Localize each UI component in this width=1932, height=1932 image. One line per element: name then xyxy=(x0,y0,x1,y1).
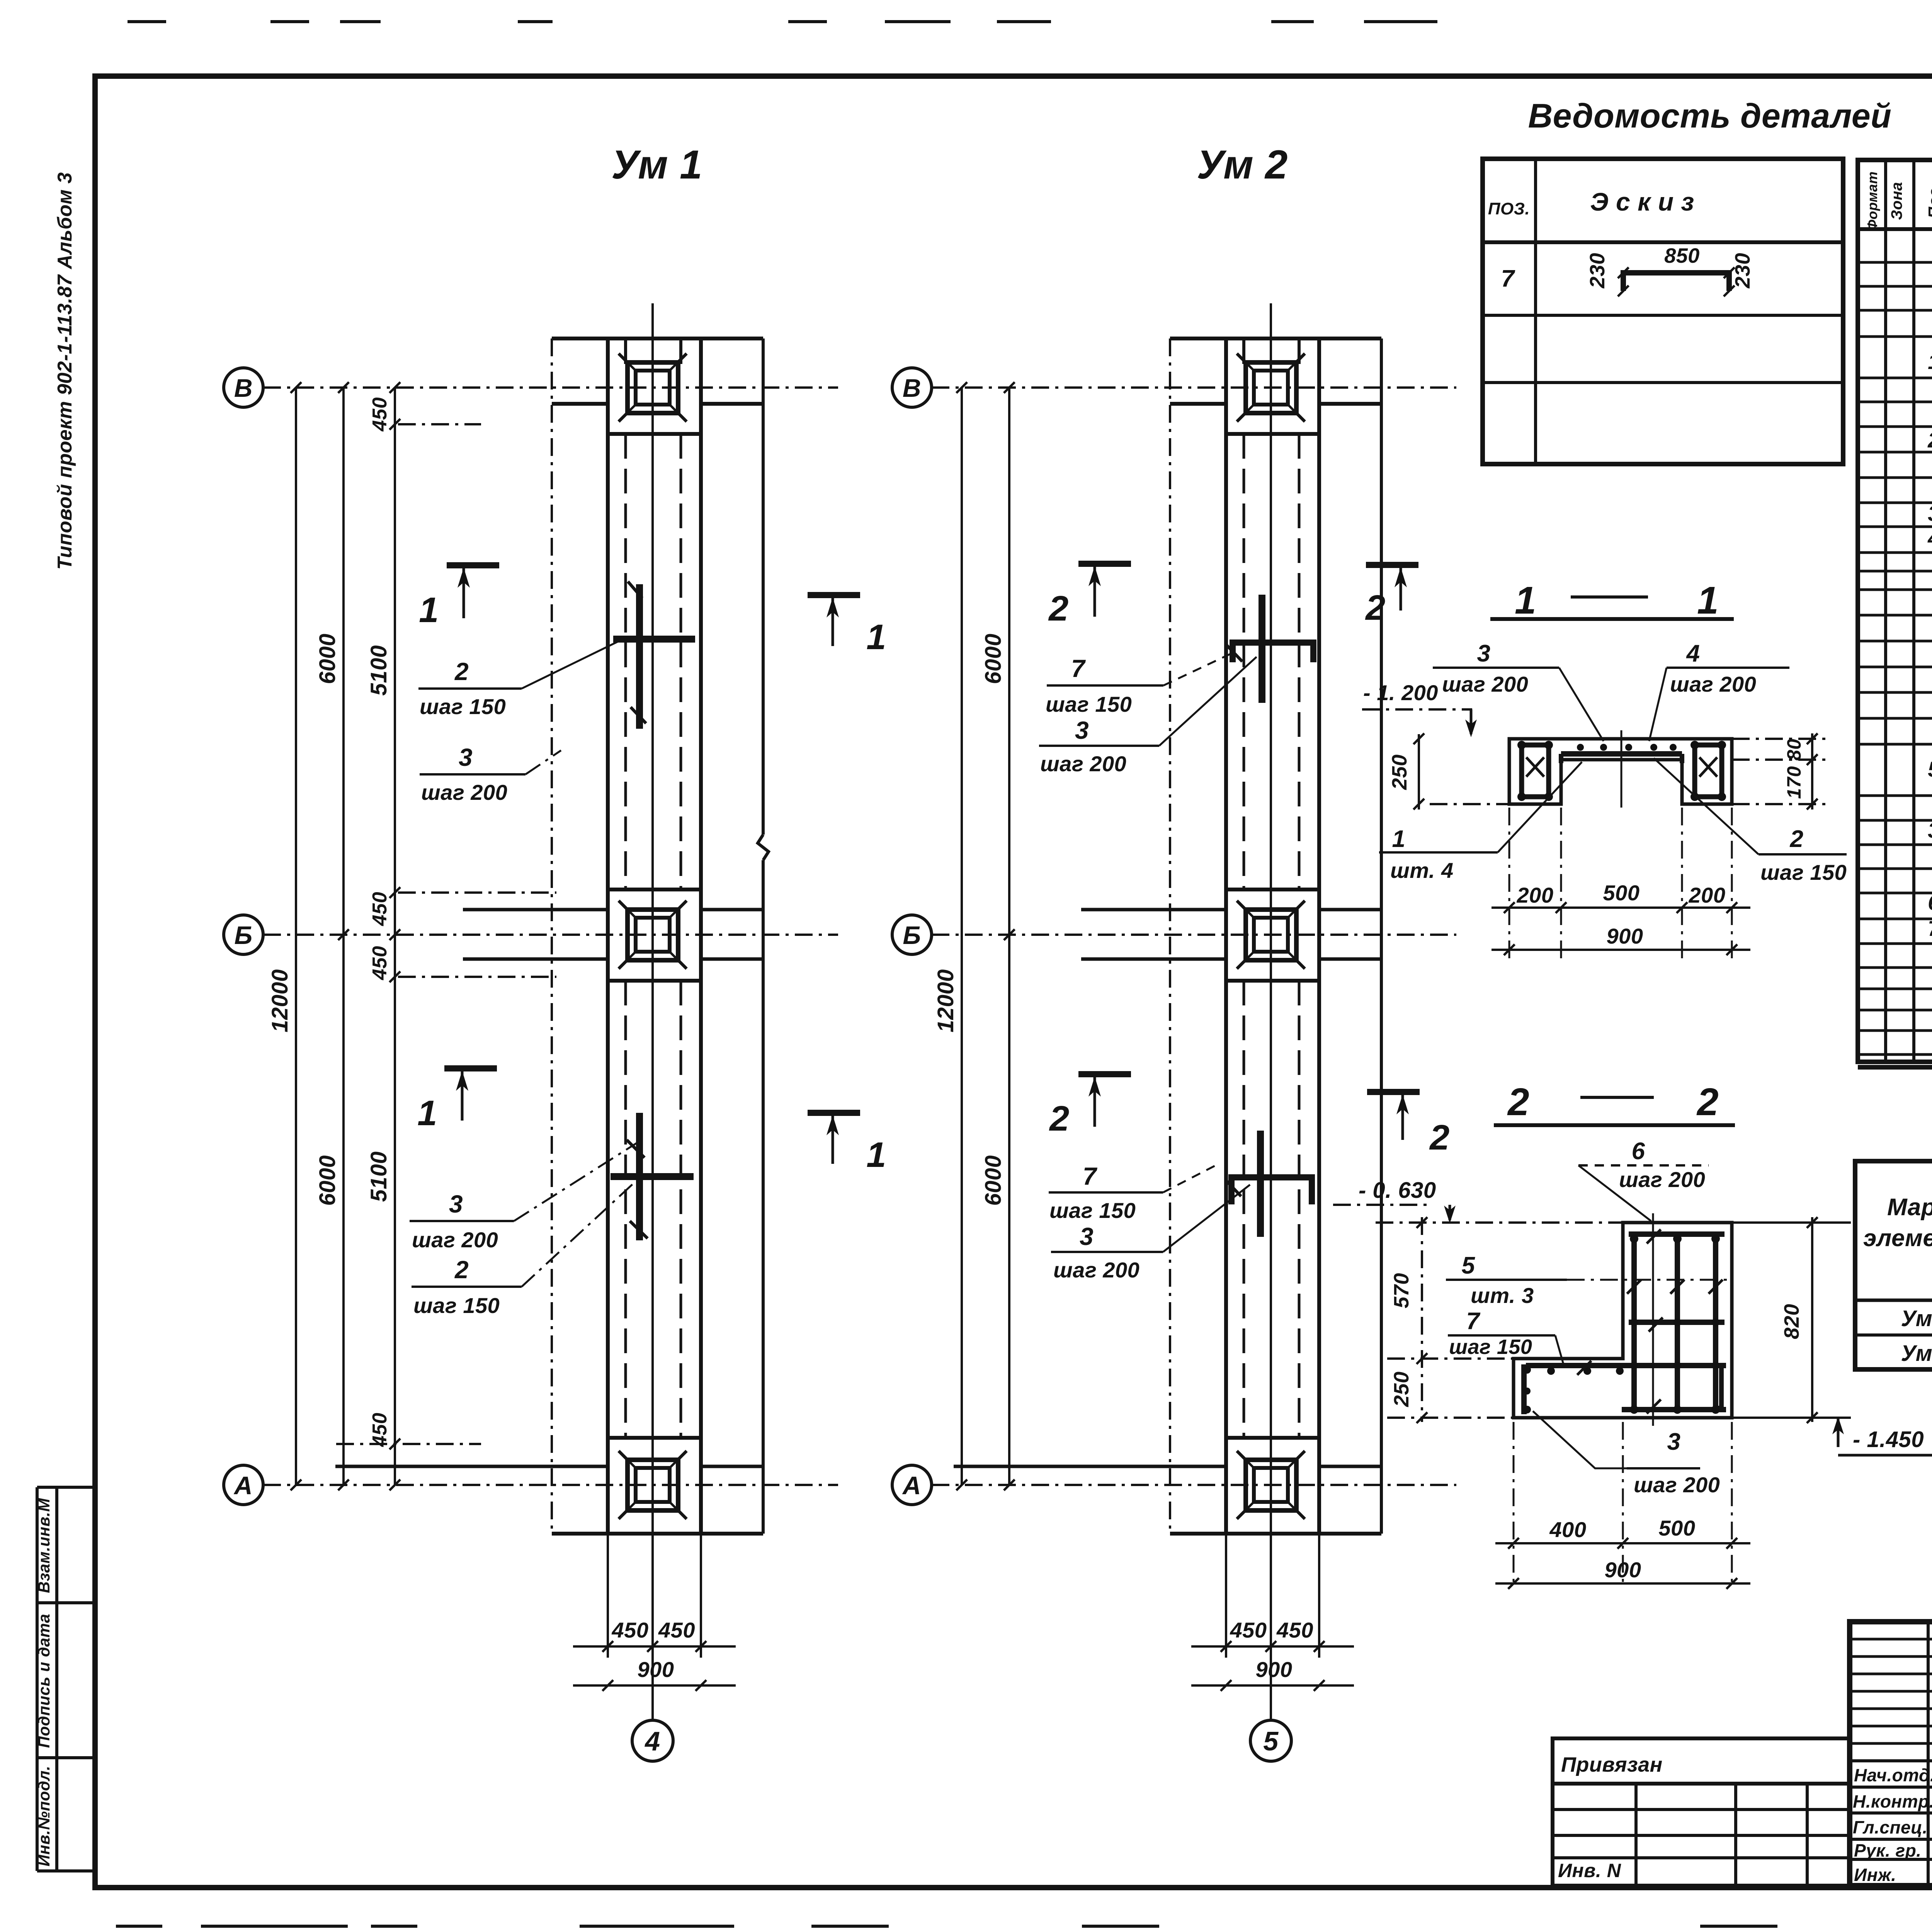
svg-text:850: 850 xyxy=(1664,244,1700,267)
svg-text:450: 450 xyxy=(1230,1618,1267,1642)
dims 400 500 (sec 2-2 bottom) xyxy=(1513,1422,1515,1588)
svg-text:В: В xyxy=(234,374,253,402)
Ум 1 grid bubble xyxy=(651,1685,654,1720)
svg-text:Поз.: Поз. xyxy=(1925,184,1932,219)
svg-text:450: 450 xyxy=(658,1618,695,1642)
section 1-1 left wall stirrup cage xyxy=(1522,745,1549,797)
svg-text:7: 7 xyxy=(1501,265,1515,292)
svg-text:шт. 3: шт. 3 xyxy=(1471,1283,1534,1308)
svg-text:3: 3 xyxy=(1477,640,1491,667)
title block left stamp columns xyxy=(1927,1622,1930,1886)
section 2-2 cage corner dots xyxy=(1630,1235,1638,1243)
svg-text:5: 5 xyxy=(1928,757,1932,781)
svg-text:5: 5 xyxy=(1462,1252,1476,1279)
svg-text:450: 450 xyxy=(369,892,391,926)
svg-text:Марка: Марка xyxy=(1887,1194,1932,1221)
section mark 1 xyxy=(447,562,499,568)
Ум 1 middle pad (axis Б) xyxy=(608,888,701,891)
dims 570 250 (sec 2-2 left) xyxy=(1421,1217,1423,1422)
svg-text:Гл.спец.: Гл.спец. xyxy=(1853,1817,1928,1837)
svg-text:6: 6 xyxy=(1928,890,1932,915)
Ум 1 left slab edge (dash-dot) xyxy=(551,338,553,1534)
svg-text:Э с к и з: Э с к и з xyxy=(1590,187,1694,216)
section mark 2 xyxy=(1366,562,1418,568)
svg-text:6000: 6000 xyxy=(981,1155,1006,1206)
svg-text:1: 1 xyxy=(866,1135,886,1175)
dims 200 500 200 (sec 1-1 bottom) xyxy=(1509,808,1510,958)
svg-text:5: 5 xyxy=(1263,1726,1279,1756)
section 1-1 concrete outline xyxy=(1509,739,1732,804)
svg-text:шаг 200: шаг 200 xyxy=(421,780,507,804)
Ум 1 bottom pad (axis А) xyxy=(608,1436,701,1440)
svg-text:3: 3 xyxy=(1075,716,1089,744)
Ум 1 bottom dims 450 450 900 xyxy=(607,1534,609,1658)
Ум 1 centre axis line xyxy=(651,303,654,1685)
Ум 1 slab top edge xyxy=(552,337,763,340)
svg-text:Ум 2: Ум 2 xyxy=(1197,142,1288,187)
dim 820 (sec 2-2 right) xyxy=(1811,1217,1813,1422)
svg-text:2: 2 xyxy=(1365,588,1386,628)
rebar bracket+cage mark Ум2 span Б-А xyxy=(1257,1131,1264,1237)
svg-text:3: 3 xyxy=(1928,501,1932,526)
svg-text:6000: 6000 xyxy=(315,633,340,684)
svg-text:1: 1 xyxy=(866,617,886,657)
svg-text:3: 3 xyxy=(459,743,473,771)
section 1-1 top rebar with dots xyxy=(1561,751,1682,757)
svg-text:- 0. 630: - 0. 630 xyxy=(1359,1178,1436,1203)
Ум 2 grid bubble xyxy=(1270,1685,1272,1720)
parts table column lines xyxy=(1884,160,1887,1062)
Ум 1 interior dashed lines xyxy=(624,338,627,364)
parts table header row xyxy=(1858,227,1932,231)
svg-text:2: 2 xyxy=(1507,1080,1529,1124)
svg-text:2: 2 xyxy=(454,1256,469,1284)
svg-text:Типовой проект 902-1-113.87: Типовой проект 902-1-113.87 Альбом 3 xyxy=(54,172,76,570)
Ум 2 right slab edge xyxy=(1380,338,1383,1534)
svg-text:450: 450 xyxy=(612,1618,649,1642)
svg-text:А: А xyxy=(902,1471,921,1500)
binding table frame xyxy=(1553,1738,1850,1886)
svg-text:Взам.инв.М: Взам.инв.М xyxy=(35,1498,53,1593)
section mark 1 xyxy=(808,1110,860,1116)
svg-text:шаг 200: шаг 200 xyxy=(1053,1258,1139,1282)
elevation -1.450 xyxy=(1837,1419,1840,1447)
svg-text:1: 1 xyxy=(1697,579,1719,622)
svg-text:шаг 200: шаг 200 xyxy=(1634,1473,1720,1497)
rebar bracket+cage mark Ум2 span В-Б xyxy=(1259,595,1265,703)
svg-text:Инж.: Инж. xyxy=(1854,1865,1896,1885)
svg-text:шаг 150: шаг 150 xyxy=(1046,692,1132,716)
svg-text:7: 7 xyxy=(1071,655,1086,682)
svg-text:2: 2 xyxy=(1790,826,1804,852)
svg-text:Инв. N: Инв. N xyxy=(1558,1860,1621,1881)
svg-text:230: 230 xyxy=(1731,253,1754,289)
svg-text:элемента: элемента xyxy=(1863,1225,1932,1252)
section 2-2 vertical cage bars xyxy=(1631,1233,1637,1410)
title block signature rows xyxy=(1850,1759,1932,1762)
svg-text:Б: Б xyxy=(234,921,252,949)
svg-text:7: 7 xyxy=(1083,1162,1098,1190)
Ум 2 centre axis line xyxy=(1270,303,1272,1685)
dims 80 170 (sec 1-1 right) xyxy=(1811,733,1813,810)
svg-text:3: 3 xyxy=(449,1190,463,1218)
Ум 1 dim line 5100/450 chain xyxy=(394,388,396,1485)
svg-text:Ум 2: Ум 2 xyxy=(1901,1341,1932,1366)
svg-text:6000: 6000 xyxy=(315,1155,340,1206)
Ум 2 interior dashed lines xyxy=(1242,338,1245,364)
Ум 2 dimension lines xyxy=(961,388,963,1485)
svg-text:2: 2 xyxy=(1429,1118,1450,1157)
svg-text:Инв.№подл.: Инв.№подл. xyxy=(35,1766,53,1867)
svg-text:шаг 150: шаг 150 xyxy=(1049,1198,1136,1223)
svg-text:200: 200 xyxy=(1517,883,1554,907)
section mark 2 xyxy=(1078,1071,1131,1077)
svg-text:500: 500 xyxy=(1659,1516,1696,1540)
svg-text:250: 250 xyxy=(1388,754,1411,790)
section 2-2 tick marks on bars xyxy=(1647,1230,1661,1243)
svg-text:шаг 200: шаг 200 xyxy=(412,1228,498,1252)
Ум 2 slab top edge xyxy=(1170,337,1381,340)
steel table outer frame xyxy=(1855,1161,1932,1369)
svg-text:Формат: Формат xyxy=(1864,171,1880,230)
svg-text:450: 450 xyxy=(369,946,391,980)
svg-text:1: 1 xyxy=(1515,579,1536,622)
svg-text:570: 570 xyxy=(1390,1273,1413,1308)
parts table extra row lines (narrow columns) xyxy=(1858,285,1932,288)
Ум 1 dimension lines xyxy=(295,388,297,1485)
svg-text:1: 1 xyxy=(1392,826,1406,852)
parts table row lines (full width) xyxy=(1858,261,1932,264)
svg-text:Б: Б xyxy=(903,921,921,949)
svg-text:- 1.450: - 1.450 xyxy=(1853,1427,1924,1452)
svg-text:7: 7 xyxy=(1466,1308,1481,1335)
svg-text:3: 3 xyxy=(1928,818,1932,842)
svg-text:250: 250 xyxy=(1390,1371,1413,1407)
parts table outer frame xyxy=(1858,160,1932,1062)
binding table grid xyxy=(1634,1784,1638,1886)
svg-text:900: 900 xyxy=(1256,1657,1293,1682)
Ум 1 axis circles В Б А xyxy=(224,368,263,407)
section mark 1 xyxy=(444,1065,497,1071)
left margin stamp boxes xyxy=(36,1487,39,1871)
svg-text:Подпись и дата: Подпись и дата xyxy=(35,1614,53,1748)
svg-text:2: 2 xyxy=(454,658,469,685)
svg-text:6: 6 xyxy=(1632,1138,1645,1165)
svg-text:- 1. 200: - 1. 200 xyxy=(1363,680,1438,705)
svg-text:шаг 150: шаг 150 xyxy=(1449,1335,1532,1359)
svg-text:900: 900 xyxy=(1605,1558,1641,1582)
svg-text:450: 450 xyxy=(369,397,391,432)
svg-text:4: 4 xyxy=(644,1726,660,1756)
svg-text:1: 1 xyxy=(417,1094,437,1133)
svg-text:шаг 150: шаг 150 xyxy=(1760,860,1847,884)
svg-text:230: 230 xyxy=(1586,253,1609,289)
Ум 1 strip walls xyxy=(606,338,610,1534)
svg-text:шаг 150: шаг 150 xyxy=(413,1293,500,1318)
svg-text:Ведомость деталей: Ведомость деталей xyxy=(1528,97,1892,135)
section 2-2 concrete outline (L shape) xyxy=(1514,1223,1732,1418)
svg-text:А: А xyxy=(233,1471,253,1500)
title block outer frame xyxy=(1850,1622,1932,1886)
svg-text:Зона: Зона xyxy=(1888,182,1905,220)
svg-text:3: 3 xyxy=(1667,1429,1681,1455)
svg-text:900: 900 xyxy=(1607,924,1643,948)
section 1-1 right wall stirrup cage xyxy=(1695,745,1722,797)
svg-text:12000: 12000 xyxy=(933,969,958,1032)
dim 900 (sec 2-2 bottom) xyxy=(1495,1582,1750,1585)
svg-text:900: 900 xyxy=(638,1657,674,1682)
Ум 1 column squares xyxy=(628,362,678,413)
svg-text:шаг 200: шаг 200 xyxy=(1619,1167,1705,1192)
sketch table frame xyxy=(1483,159,1843,464)
svg-text:Ум 1: Ум 1 xyxy=(1901,1306,1932,1331)
section 2-2 centre line xyxy=(1652,1213,1654,1426)
svg-text:4: 4 xyxy=(1686,640,1700,667)
Ум 2 bottom pad (axis А) xyxy=(1226,1436,1319,1440)
svg-text:12000: 12000 xyxy=(267,969,293,1032)
section mark 2 xyxy=(1367,1089,1420,1095)
svg-text:820: 820 xyxy=(1780,1304,1803,1339)
Ум 2 top pad (axis В) xyxy=(1226,432,1319,436)
section mark 1 xyxy=(808,592,860,598)
svg-text:Нач.отд.: Нач.отд. xyxy=(1854,1765,1932,1785)
svg-text:шаг 200: шаг 200 xyxy=(1670,672,1756,696)
Ум 2 axis circles В Б А xyxy=(892,368,932,407)
svg-text:Ум 1: Ум 1 xyxy=(611,142,702,187)
Ум 1 top pad (axis В) xyxy=(608,432,701,436)
svg-text:Н.контр.: Н.контр. xyxy=(1853,1791,1932,1811)
section 2-2 horizontal cage bars xyxy=(1629,1231,1725,1237)
Ум 2 strip walls xyxy=(1224,338,1228,1534)
svg-text:ПОЗ.: ПОЗ. xyxy=(1488,199,1530,218)
svg-text:Рук. гр.: Рук. гр. xyxy=(1854,1840,1922,1861)
svg-text:7: 7 xyxy=(1928,916,1932,940)
svg-text:4: 4 xyxy=(1927,526,1932,550)
torn paper edge dashes (top) xyxy=(128,20,166,23)
svg-text:Привязан: Привязан xyxy=(1561,1753,1663,1776)
svg-text:2: 2 xyxy=(1696,1080,1719,1124)
title block left stamp thin rows xyxy=(1850,1638,1932,1641)
svg-text:1: 1 xyxy=(419,590,439,630)
svg-text:6000: 6000 xyxy=(981,633,1006,684)
svg-text:шт. 4: шт. 4 xyxy=(1390,858,1454,883)
svg-text:5100: 5100 xyxy=(366,1151,391,1202)
svg-text:170: 170 xyxy=(1783,766,1805,799)
section mark 2 xyxy=(1078,561,1131,567)
svg-text:400: 400 xyxy=(1549,1517,1587,1542)
svg-text:5100: 5100 xyxy=(366,645,391,696)
Ум 1 right slab edge xyxy=(762,338,765,835)
svg-text:шаг 200: шаг 200 xyxy=(1442,672,1528,696)
Ум 2 column squares xyxy=(1246,362,1296,413)
svg-text:шаг 200: шаг 200 xyxy=(1040,752,1126,776)
svg-text:500: 500 xyxy=(1603,881,1640,905)
svg-text:450: 450 xyxy=(369,1413,391,1447)
svg-text:80: 80 xyxy=(1783,739,1805,761)
svg-text:3: 3 xyxy=(1080,1223,1094,1250)
rebar cage mark Ум1 span Б-А xyxy=(636,1113,643,1240)
Ум 2 left slab edge (dash-dot) xyxy=(1169,338,1171,1534)
svg-text:200: 200 xyxy=(1689,883,1726,907)
Ум 1 extension dash-dot lines at 450 ticks xyxy=(398,423,481,425)
Ум 2 bottom dims 450 450 900 xyxy=(1225,1534,1227,1658)
section 2-2 horizontal leg cage xyxy=(1521,1364,1527,1414)
svg-text:2: 2 xyxy=(1048,589,1069,628)
svg-text:шаг 150: шаг 150 xyxy=(420,694,506,719)
Ум 2 middle pad (axis Б) xyxy=(1226,888,1319,891)
svg-text:1: 1 xyxy=(1928,349,1932,374)
svg-text:2: 2 xyxy=(1049,1099,1070,1138)
section 1-1 centre line xyxy=(1621,730,1622,808)
sketch: bent bar item 7 xyxy=(1623,273,1729,291)
svg-text:В: В xyxy=(903,374,921,402)
rebar cage mark Ум1 span В-Б xyxy=(636,584,643,729)
svg-text:450: 450 xyxy=(1276,1618,1313,1642)
svg-text:2: 2 xyxy=(1927,428,1932,452)
dim 900 (sec 1-1 bottom) xyxy=(1492,949,1750,951)
dim 250 (sec 1-1 left) xyxy=(1418,734,1420,810)
torn paper edge dashes (bottom) xyxy=(116,1925,162,1928)
